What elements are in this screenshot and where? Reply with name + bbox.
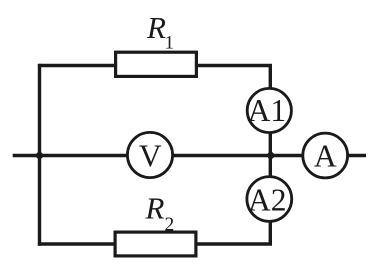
node junction left (36, 152, 43, 159)
svg-text:A1: A1 (248, 93, 287, 128)
svg-text:R2: R2 (145, 191, 175, 236)
wire junction down into A2 (269, 155, 272, 199)
ammeter A circle (303, 133, 348, 178)
ammeter A1 circle (247, 88, 291, 132)
resistor R2 (115, 232, 196, 256)
resistor R1 (116, 52, 197, 76)
svg-text:R1: R1 (146, 10, 174, 54)
svg-text:A2: A2 (248, 183, 287, 218)
node junction right (267, 152, 274, 159)
voltmeter V circle (127, 132, 172, 177)
wire A1 to middle junction (269, 111, 272, 156)
svg-text:A: A (314, 139, 337, 174)
wire top branch (left rail to R1 to corner, down into A1) (38, 66, 270, 111)
ammeter A2 circle (247, 177, 292, 222)
wire left vertical (38, 64, 41, 246)
wire bottom branch (left rail to R2 to corner, up into A2) (38, 199, 270, 244)
svg-text:V: V (139, 139, 162, 174)
wire middle horizontal (left stub through V, junction, A, right stub) (13, 154, 366, 157)
